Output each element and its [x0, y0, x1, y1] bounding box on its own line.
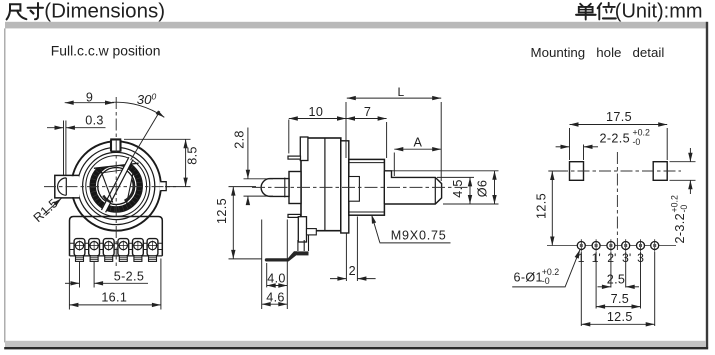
- dim 4.5 line: [469, 177, 471, 204]
- lower body outline: [70, 217, 163, 256]
- svg-text:10: 10: [309, 105, 324, 119]
- dim 16.1 ext lines: [69, 259, 160, 310]
- collar: [289, 172, 301, 204]
- dim 12.5b line: [581, 323, 654, 325]
- dim 30 arc: [112, 102, 164, 117]
- hole 3: [607, 239, 615, 252]
- svg-text:Mounting hole detail: Mounting hole detail: [531, 45, 665, 60]
- dim L ext lines: [346, 102, 441, 181]
- dim dia6 ext lines: [392, 171, 499, 204]
- svg-text:M9X0.75: M9X0.75: [391, 229, 447, 243]
- holes line: [547, 245, 676, 247]
- leader M9X0.75: [372, 215, 380, 243]
- svg-text:(Dimensions): (Dimensions): [44, 0, 165, 23]
- dim 12.5 line: [232, 187, 234, 259]
- dim 12.5v ext lines: [548, 170, 566, 172]
- dim L line: [347, 97, 441, 99]
- vertical centerline: [616, 152, 618, 252]
- shaft wedge right chord: [127, 167, 135, 204]
- pin vertical: [298, 235, 309, 251]
- frame top gray bar: [5, 22, 707, 29]
- dim 4.6 line: [262, 303, 288, 305]
- dim 30 radial line: [131, 111, 160, 160]
- dim 12.5 ext lines: [229, 187, 263, 259]
- dim 10 ext line left: [288, 120, 290, 154]
- dim 4.0 line: [267, 285, 288, 287]
- bushing thread lines: [349, 163, 385, 212]
- title CJK 单位 glyph strokes: [576, 3, 616, 20]
- dim 4.0 ext lines: [267, 220, 288, 310]
- pin 5: [133, 239, 144, 262]
- bushing inner circle: [86, 156, 147, 217]
- svg-text:2: 2: [349, 264, 356, 278]
- dim 7 ext line right: [386, 122, 388, 158]
- svg-text:2-3.2: 2-3.2: [673, 213, 687, 243]
- svg-text:5-2.5: 5-2.5: [114, 269, 144, 283]
- svg-text:4.0: 4.0: [267, 272, 286, 286]
- stud inner line: [284, 178, 286, 198]
- shaft slot lines: [102, 157, 134, 212]
- front centerline horizontal: [44, 186, 176, 188]
- right bump outline: [160, 182, 166, 191]
- leader R1.5: [44, 198, 62, 214]
- pin 1: [74, 239, 85, 262]
- dim 5-2.5 line: [65, 282, 80, 284]
- front centerline vertical: [115, 97, 117, 268]
- dim 7.5 line: [596, 306, 640, 308]
- horizontal centerline through squares: [556, 170, 681, 172]
- shaft: [384, 171, 441, 204]
- dim 17.5 line: [570, 124, 668, 126]
- dim 9 line: [65, 102, 114, 104]
- left tab outline: [55, 175, 79, 198]
- dim 2.8 line upper: [247, 128, 249, 179]
- svg-text:2.5: 2.5: [607, 273, 626, 287]
- dim 0.3 line right: [66, 127, 106, 129]
- svg-text:1': 1': [592, 251, 601, 265]
- shaft slot erase: [102, 157, 134, 212]
- pins row: [74, 239, 158, 262]
- body face circle: [78, 147, 155, 224]
- dim 2-3.2 line top: [689, 148, 691, 162]
- dim 2 line right: [357, 278, 375, 280]
- dim 9 ext lines: [64, 121, 66, 176]
- svg-text:-0: -0: [633, 137, 641, 147]
- dim 2.5 line right: [626, 286, 639, 288]
- body inner line: [324, 138, 326, 231]
- hole 5: [637, 239, 645, 252]
- dim 2 line left: [330, 278, 346, 280]
- shaft root line: [383, 171, 385, 204]
- left square hole: [570, 162, 584, 181]
- dim 2-2.5 line left: [556, 146, 570, 148]
- svg-text:2-2.5: 2-2.5: [600, 131, 630, 145]
- svg-text:1: 1: [578, 251, 585, 265]
- dim 17.5 ext lines: [570, 128, 668, 160]
- svg-text:12.5: 12.5: [534, 193, 548, 219]
- stud: [261, 179, 289, 197]
- knurl texture ticks: [93, 163, 139, 209]
- dim 2-3.2 ext lines: [670, 162, 696, 181]
- frame bottom black line: [4, 347, 708, 349]
- dim 2.5 line left: [598, 286, 611, 288]
- svg-text:8.5: 8.5: [185, 146, 199, 165]
- svg-text:6-Ø1: 6-Ø1: [514, 271, 543, 285]
- dim 16.1 line: [69, 304, 160, 306]
- hole 2: [592, 239, 600, 252]
- dim 2-2.5 line right: [584, 146, 599, 148]
- knurl dark ring: [93, 163, 139, 209]
- bushing circle: [83, 152, 150, 219]
- left tab pin semicircle: [58, 178, 67, 195]
- svg-text:12.5: 12.5: [607, 310, 633, 324]
- dim 10 line: [289, 118, 346, 120]
- dim 7 line: [346, 118, 387, 120]
- mounting dims: [512, 125, 695, 327]
- dim 2 ext lines: [346, 217, 357, 282]
- pin 6: [147, 239, 158, 262]
- dim 0.3 line left: [47, 127, 64, 129]
- dim text 2-3.2 with tolerance: [669, 195, 688, 243]
- hole ext lines: [581, 252, 654, 326]
- title CJK 尺寸 glyph strokes: [7, 3, 43, 19]
- frame left border: [4, 28, 5, 342]
- right square hole: [653, 162, 667, 181]
- svg-text:-0: -0: [679, 205, 689, 213]
- pin bracket hook: [307, 229, 317, 235]
- dim 5-2.5 ext lines: [80, 262, 95, 288]
- svg-text:7: 7: [364, 105, 371, 119]
- dim 8.5 ext lines: [124, 139, 191, 186]
- shaft flat erase: [94, 158, 139, 168]
- svg-text:2': 2': [607, 251, 616, 265]
- svg-text:16.1: 16.1: [101, 291, 127, 305]
- hole 4: [622, 239, 630, 252]
- side centerline: [252, 186, 470, 188]
- svg-text:9: 9: [86, 90, 93, 104]
- right bump erase: [160, 182, 167, 191]
- pin bracket: [298, 217, 306, 242]
- hole 6: [651, 239, 659, 252]
- top mounting lug: [300, 137, 308, 161]
- body main rect: [301, 138, 341, 231]
- svg-text:-0: -0: [542, 276, 550, 286]
- bushing: [349, 159, 385, 215]
- dim 8.5 line: [185, 139, 187, 186]
- shaft dark arc right: [125, 180, 134, 201]
- svg-text:Full.c.c.w position: Full.c.c.w position: [51, 43, 161, 59]
- terminal strip lines: [70, 243, 163, 249]
- pin 4: [118, 239, 129, 262]
- dim A ext line left: [393, 153, 395, 177]
- dim 12.5v line: [551, 171, 553, 246]
- dim 2.8 ext lines: [244, 179, 274, 196]
- svg-text:3: 3: [637, 251, 644, 265]
- knurl outer circle: [90, 160, 142, 212]
- leader 6-dia1: [512, 250, 580, 287]
- shaft dark arc left: [103, 196, 111, 203]
- svg-text:12.5: 12.5: [215, 198, 229, 224]
- top notch outline: [110, 139, 121, 151]
- shaft inner circle: [98, 168, 135, 205]
- top tab bar: [288, 156, 301, 159]
- bushing hole rect: [349, 177, 360, 202]
- pin 2: [89, 239, 100, 262]
- dim 2-2.5 ext line: [583, 145, 585, 161]
- cover slab: [341, 141, 349, 233]
- pin 3: [103, 239, 114, 262]
- pin foot: [265, 258, 290, 261]
- shaft chamfer line: [434, 177, 436, 204]
- svg-text:4.5: 4.5: [451, 179, 465, 198]
- hole 1: [577, 239, 585, 252]
- svg-text:(Unit):mm: (Unit):mm: [615, 1, 703, 23]
- left tab erase: [54, 176, 79, 197]
- dim 2-3.2 line bottom: [689, 180, 691, 194]
- svg-text:4.6: 4.6: [266, 291, 285, 305]
- svg-text:7.5: 7.5: [611, 292, 630, 306]
- shaft wedge left chord: [101, 171, 113, 203]
- frame right border: [706, 22, 708, 348]
- dim dia6 line: [494, 171, 496, 204]
- svg-text:A: A: [414, 135, 423, 149]
- svg-text:3': 3': [622, 251, 631, 265]
- dim 4.6 ext line: [261, 220, 263, 310]
- top notch erase: [110, 139, 121, 152]
- body outer circle: [72, 141, 161, 230]
- bottom tab bar: [288, 214, 301, 217]
- shaft flat chord: [94, 163, 139, 168]
- svg-text:L: L: [397, 85, 404, 99]
- bottom edge: [70, 255, 163, 257]
- frame bottom gray bar: [5, 341, 706, 347]
- svg-text:2.8: 2.8: [232, 130, 246, 149]
- svg-text:17.5: 17.5: [606, 110, 632, 124]
- dim 4.5 ext lines: [437, 177, 474, 204]
- shaft flat inner chord: [99, 168, 134, 173]
- svg-text:Ø6: Ø6: [476, 180, 490, 198]
- svg-text:0.3: 0.3: [85, 114, 104, 128]
- dim 2.8 line lower: [247, 196, 249, 205]
- dim A line: [394, 148, 441, 150]
